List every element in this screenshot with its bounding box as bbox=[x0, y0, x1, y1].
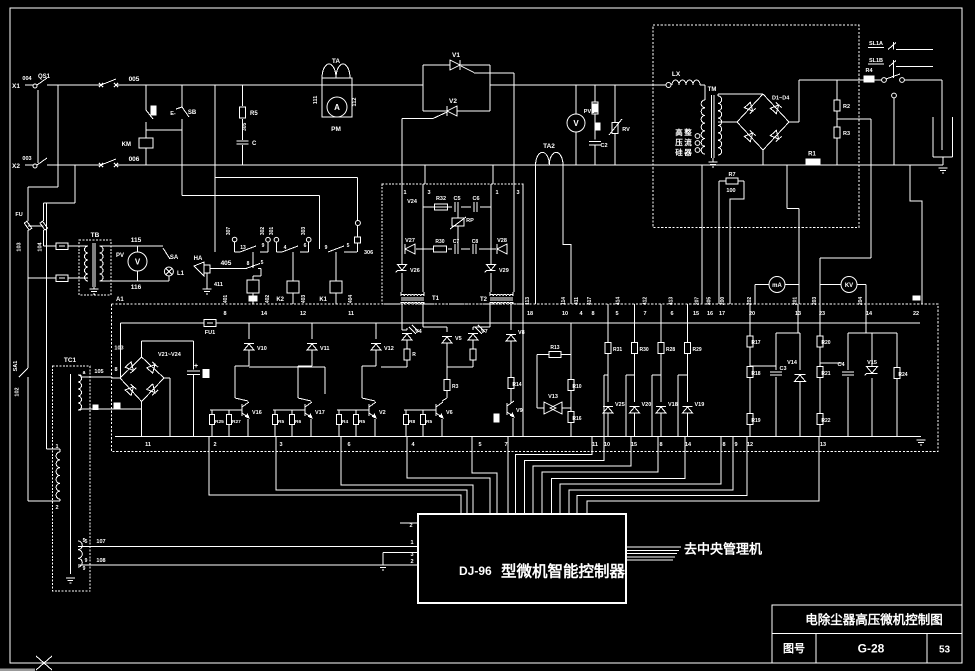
wire TA2 b bbox=[561, 165, 571, 305]
wire TM secondary tap bbox=[718, 121, 737, 123]
svg-text:305: 305 bbox=[242, 122, 248, 131]
svg-text:V16: V16 bbox=[252, 410, 262, 416]
svg-text:15: 15 bbox=[693, 311, 699, 317]
wire bridge out bbox=[789, 80, 864, 122]
switch K throw2 bbox=[892, 93, 897, 165]
svg-text:3: 3 bbox=[516, 190, 519, 196]
svg-text:KV: KV bbox=[845, 283, 853, 289]
svg-text:302: 302 bbox=[260, 227, 266, 236]
svg-text:200: 200 bbox=[720, 297, 726, 306]
svg-text:SL1A: SL1A bbox=[869, 41, 883, 47]
resistor R16 bbox=[568, 412, 582, 437]
svg-text:R24: R24 bbox=[898, 372, 907, 378]
switch SA bbox=[163, 248, 179, 261]
wire label 402 bbox=[265, 295, 271, 304]
svg-text:404: 404 bbox=[348, 295, 354, 304]
wire bus L2 mid bbox=[116, 164, 654, 166]
svg-text:6: 6 bbox=[347, 442, 350, 448]
fan-out wires right bbox=[516, 437, 747, 515]
svg-text:411: 411 bbox=[574, 297, 580, 305]
relay coil K3 bbox=[247, 252, 259, 304]
svg-text:V: V bbox=[573, 119, 579, 128]
svg-text:V2: V2 bbox=[449, 98, 457, 105]
resistor R7 bbox=[719, 172, 744, 304]
svg-text:307: 307 bbox=[226, 227, 232, 236]
capacitor C2 branch bbox=[589, 85, 608, 165]
label PM bbox=[331, 126, 341, 133]
svg-text:V1: V1 bbox=[452, 52, 460, 59]
svg-text:103: 103 bbox=[17, 242, 23, 251]
TC winding primary bbox=[55, 444, 60, 511]
svg-text:2: 2 bbox=[55, 505, 58, 511]
feedback wire 200 bbox=[910, 165, 922, 304]
diode V5 bbox=[423, 304, 462, 394]
controller label bbox=[459, 562, 626, 581]
svg-text:15: 15 bbox=[631, 442, 637, 448]
bridge diode V22 bbox=[147, 362, 158, 373]
svg-text:SA: SA bbox=[170, 255, 179, 261]
svg-text:R19: R19 bbox=[751, 418, 760, 424]
relay contact aux bbox=[246, 260, 264, 276]
svg-text:004: 004 bbox=[22, 76, 32, 82]
wire 105 return bbox=[81, 402, 142, 437]
wire 200 return bbox=[730, 181, 744, 304]
bridge diode D3 bbox=[744, 130, 755, 141]
node 005 bbox=[129, 76, 140, 83]
resistor R21 bbox=[817, 360, 831, 413]
switch K common bbox=[882, 78, 887, 83]
svg-text:C5: C5 bbox=[453, 196, 460, 202]
capacitor C6 bbox=[472, 196, 479, 212]
triac V13 bbox=[537, 394, 571, 414]
signal lamp L1 bbox=[164, 267, 184, 281]
diode V27 bbox=[405, 238, 415, 254]
wire 202 drop bbox=[754, 285, 756, 305]
svg-text:V2: V2 bbox=[379, 410, 386, 416]
resistor R5 bbox=[240, 107, 259, 131]
fan-out straight bbox=[507, 437, 509, 515]
photothyristor V7 bbox=[447, 304, 490, 367]
svg-text:R5: R5 bbox=[250, 111, 258, 117]
svg-text:7: 7 bbox=[643, 311, 646, 317]
bridge output wires bbox=[142, 341, 194, 357]
fuse R4 bbox=[864, 68, 874, 82]
terminal 307 bbox=[226, 227, 237, 252]
svg-text:305: 305 bbox=[707, 297, 713, 306]
svg-text:TA: TA bbox=[332, 58, 340, 65]
svg-text:207: 207 bbox=[695, 297, 701, 306]
wire T1 stub bbox=[401, 165, 403, 184]
thyristor V2 bbox=[447, 98, 457, 116]
svg-text:006: 006 bbox=[129, 156, 140, 163]
wire trigger v1 bbox=[401, 184, 403, 249]
svg-text:111: 111 bbox=[313, 96, 319, 105]
TM taps bbox=[695, 134, 700, 153]
svg-text:R: R bbox=[412, 352, 416, 358]
kilovoltmeter PV2 bbox=[820, 277, 866, 305]
svg-text:R13: R13 bbox=[550, 345, 559, 351]
svg-text:C: C bbox=[252, 141, 257, 147]
wire TC feeder bbox=[47, 203, 60, 449]
wire column link c bbox=[652, 375, 661, 437]
svg-text:9: 9 bbox=[325, 245, 328, 251]
wire KM branch bbox=[145, 85, 147, 165]
TC winding a bbox=[78, 370, 86, 410]
RC rail top bbox=[423, 206, 491, 208]
wire kV tap bbox=[837, 119, 871, 258]
svg-text:R32: R32 bbox=[436, 196, 446, 202]
terminal X1 bbox=[12, 76, 33, 90]
svg-text:R2: R2 bbox=[843, 104, 850, 110]
wire label 404 bbox=[348, 295, 354, 304]
svg-text:V19: V19 bbox=[695, 402, 705, 408]
wire label 401 bbox=[223, 295, 229, 304]
svg-text:A: A bbox=[334, 103, 340, 112]
svg-text:SB: SB bbox=[188, 110, 197, 116]
svg-text:型微机智能控制器: 型微机智能控制器 bbox=[501, 562, 626, 581]
driver V6 cell bbox=[404, 394, 453, 437]
wire TM secondary top bbox=[718, 94, 763, 96]
wire tap 102 bbox=[44, 165, 76, 203]
resistor R3 bbox=[834, 111, 850, 165]
driver V16 cell bbox=[210, 323, 267, 437]
controller pin2 stub bbox=[400, 523, 418, 529]
title block divider bbox=[772, 634, 962, 664]
svg-text:V8: V8 bbox=[518, 330, 525, 336]
bridge diode V21 bbox=[125, 362, 136, 373]
svg-text:R27: R27 bbox=[232, 419, 241, 425]
wire 115 bbox=[100, 237, 164, 246]
svg-text:107: 107 bbox=[96, 539, 105, 545]
svg-text:V4: V4 bbox=[415, 329, 423, 335]
svg-text:403: 403 bbox=[301, 295, 307, 304]
board ground bbox=[917, 440, 926, 445]
fuse FU4 bbox=[28, 275, 68, 282]
svg-text:LX: LX bbox=[672, 71, 681, 78]
board top pin numbers bbox=[223, 311, 919, 317]
label 112 bbox=[352, 98, 358, 107]
wire 116 bbox=[100, 281, 169, 291]
terminal X2 bbox=[12, 156, 33, 170]
svg-text:T2: T2 bbox=[480, 297, 488, 303]
svg-text:QS1: QS1 bbox=[38, 74, 51, 80]
svg-text:V26: V26 bbox=[410, 268, 420, 274]
filter cap C9 bbox=[187, 341, 209, 437]
svg-text:R28: R28 bbox=[666, 347, 675, 353]
title text bbox=[805, 612, 943, 627]
svg-text:11: 11 bbox=[348, 311, 354, 317]
wire T1 pin3 bbox=[422, 207, 424, 292]
wire trigger v3 bbox=[490, 184, 492, 207]
bridge V21~V24 bbox=[120, 352, 182, 402]
svg-text:V18: V18 bbox=[668, 402, 678, 408]
mA net top rail bbox=[776, 304, 800, 333]
bridge right corner wire bbox=[164, 378, 170, 437]
disconnect switch QS1 pole 1 bbox=[33, 74, 51, 88]
relay coil K2 bbox=[276, 252, 299, 304]
label to central computer bbox=[684, 542, 762, 557]
label V24 bbox=[407, 199, 418, 205]
relay contact K3a bbox=[325, 243, 374, 256]
ground controller bbox=[379, 565, 388, 570]
svg-text:V25: V25 bbox=[615, 402, 625, 408]
buzzer HA bbox=[194, 256, 223, 289]
svg-text:C7: C7 bbox=[453, 239, 460, 245]
svg-text:202: 202 bbox=[747, 297, 753, 306]
svg-text:7: 7 bbox=[504, 442, 507, 448]
trigger box bbox=[382, 184, 523, 304]
svg-text:R21: R21 bbox=[821, 371, 830, 377]
svg-text:11: 11 bbox=[592, 442, 598, 448]
fuse FU2 bbox=[38, 203, 48, 252]
thyristor V1 gate wire bbox=[461, 66, 514, 73]
svg-text:R20: R20 bbox=[821, 340, 830, 346]
resistor R24 bbox=[894, 333, 908, 437]
svg-text:V13: V13 bbox=[548, 394, 558, 400]
svg-text:411: 411 bbox=[214, 282, 223, 288]
driver V2 cell bbox=[337, 323, 394, 437]
wire column link a bbox=[604, 375, 608, 437]
svg-text:115: 115 bbox=[131, 237, 142, 244]
diode V14 bbox=[787, 333, 805, 437]
svg-text:14: 14 bbox=[261, 311, 268, 317]
fan-out wire 13 bbox=[587, 437, 819, 515]
svg-text:a: a bbox=[83, 370, 86, 376]
svg-text:G-28: G-28 bbox=[858, 642, 885, 656]
contactor KM main contact L2 bbox=[99, 159, 118, 167]
svg-text:2: 2 bbox=[213, 442, 216, 448]
wire SB drop bbox=[215, 85, 357, 252]
svg-text:R5: R5 bbox=[278, 419, 284, 425]
svg-text:13: 13 bbox=[240, 245, 246, 251]
svg-text:5: 5 bbox=[261, 260, 264, 266]
svg-text:R25: R25 bbox=[215, 419, 224, 425]
svg-text:V9: V9 bbox=[516, 408, 523, 414]
svg-text:8: 8 bbox=[114, 367, 117, 373]
svg-text:306: 306 bbox=[364, 250, 373, 256]
svg-text:R4: R4 bbox=[342, 419, 348, 425]
zener V29 bbox=[485, 207, 509, 292]
svg-text:硅: 硅 bbox=[675, 147, 683, 157]
svg-text:PM: PM bbox=[331, 126, 341, 133]
TC core bbox=[69, 374, 71, 574]
svg-text:DJ-96: DJ-96 bbox=[459, 564, 492, 578]
svg-text:V12: V12 bbox=[384, 346, 394, 352]
svg-text:RP: RP bbox=[466, 218, 474, 224]
svg-text:5: 5 bbox=[347, 243, 350, 249]
pin 1 T1 bbox=[403, 190, 406, 196]
precipitator ground bbox=[939, 168, 948, 173]
pulse transformer T2 bbox=[480, 292, 513, 304]
fuse link bbox=[28, 225, 44, 227]
svg-text:6: 6 bbox=[670, 311, 673, 317]
border corner mark bbox=[0, 656, 52, 671]
TM core ground bbox=[709, 158, 718, 167]
transformer TB bbox=[68, 243, 103, 294]
svg-text:4: 4 bbox=[284, 245, 287, 251]
voltmeter PV bbox=[116, 246, 147, 281]
title field G-28 bbox=[858, 642, 885, 656]
wire V1V2 left junction bbox=[422, 65, 424, 111]
wire bus L1 mid bbox=[116, 84, 423, 86]
wire gate drop 1 bbox=[401, 119, 403, 185]
svg-text:R29: R29 bbox=[693, 347, 702, 353]
svg-text:压: 压 bbox=[675, 138, 683, 147]
svg-text:103: 103 bbox=[114, 346, 123, 352]
svg-text:L1: L1 bbox=[177, 271, 185, 277]
disconnect switch QS1 pole 2 bbox=[33, 158, 47, 168]
thyristor V1 bbox=[450, 52, 460, 70]
svg-text:V20: V20 bbox=[642, 402, 652, 408]
title block frame bbox=[772, 605, 962, 663]
svg-text:102: 102 bbox=[15, 387, 21, 396]
transformer TC box bbox=[53, 357, 91, 591]
pin 3 T2 bbox=[516, 190, 519, 196]
svg-text:9: 9 bbox=[262, 243, 265, 249]
svg-text:12: 12 bbox=[747, 442, 753, 448]
label HV rectifier bbox=[675, 127, 692, 157]
fuse FU5 bbox=[204, 320, 216, 337]
svg-text:R31: R31 bbox=[613, 347, 622, 353]
svg-text:R6: R6 bbox=[295, 419, 301, 425]
relay coil K1 bbox=[319, 252, 342, 304]
svg-text:PV: PV bbox=[116, 253, 124, 259]
svg-text:401: 401 bbox=[223, 295, 229, 304]
damping resistor R1 bbox=[806, 152, 820, 165]
svg-text:R1: R1 bbox=[808, 152, 816, 158]
svg-text:RV: RV bbox=[622, 127, 630, 133]
thyristor V2 gate wire bbox=[402, 112, 447, 119]
svg-text:V17: V17 bbox=[315, 410, 325, 416]
svg-text:112: 112 bbox=[352, 98, 358, 107]
wire T2 pin3 bbox=[513, 249, 515, 292]
HV tank box bbox=[653, 25, 859, 228]
svg-text:X1: X1 bbox=[12, 83, 20, 90]
svg-text:412: 412 bbox=[643, 297, 649, 306]
svg-text:8: 8 bbox=[591, 311, 594, 317]
svg-text:FU: FU bbox=[15, 212, 22, 218]
svg-text:C3: C3 bbox=[779, 366, 786, 372]
control board box A1 bbox=[112, 297, 939, 452]
wire label 403 bbox=[301, 295, 307, 304]
wire SA1 drop bbox=[28, 278, 60, 501]
svg-text:R17: R17 bbox=[751, 340, 760, 346]
wire v10 link bbox=[249, 367, 325, 394]
terminal 301 bbox=[269, 227, 279, 252]
svg-text:204: 204 bbox=[858, 297, 864, 306]
terminal 304 bbox=[354, 221, 360, 253]
terminal 302 bbox=[260, 227, 270, 252]
wire tap 101 bbox=[28, 85, 58, 187]
kV net top rail bbox=[848, 304, 897, 333]
svg-text:V11: V11 bbox=[320, 346, 329, 352]
svg-text:1: 1 bbox=[55, 444, 58, 450]
svg-text:V10: V10 bbox=[257, 346, 267, 352]
svg-text:R30: R30 bbox=[435, 239, 444, 245]
svg-text:SA1: SA1 bbox=[13, 361, 19, 372]
photothyristor V4 bbox=[381, 304, 423, 367]
svg-text:005: 005 bbox=[129, 76, 140, 83]
svg-text:X2: X2 bbox=[12, 163, 20, 170]
wire trigger v4 bbox=[513, 184, 515, 249]
svg-text:电除尘器高压微机控制图: 电除尘器高压微机控制图 bbox=[805, 612, 943, 627]
capacitor C4 bbox=[837, 333, 854, 437]
board bottom pin numbers bbox=[145, 442, 826, 448]
svg-text:A1: A1 bbox=[116, 297, 124, 303]
node 006 bbox=[129, 156, 140, 163]
TC ground bbox=[66, 578, 75, 583]
capacitor C5 bbox=[453, 196, 460, 212]
svg-text:整: 整 bbox=[684, 127, 692, 137]
wire T2 pin1 stub bbox=[492, 165, 494, 184]
svg-text:201: 201 bbox=[793, 297, 799, 306]
terminal 303 bbox=[301, 227, 311, 252]
buzzer ground bbox=[203, 289, 212, 294]
transistor V9 bbox=[494, 401, 523, 437]
svg-text:V6: V6 bbox=[446, 410, 453, 416]
resistor R32 bbox=[435, 196, 448, 210]
svg-text:R22: R22 bbox=[821, 418, 830, 424]
ammeter PM bbox=[327, 97, 347, 117]
bridge diode V23 bbox=[125, 384, 136, 395]
svg-text:R18: R18 bbox=[751, 371, 760, 377]
rectifier bridge D1~D4 bbox=[737, 94, 790, 150]
capacitor C3 bbox=[770, 333, 787, 437]
svg-text:14: 14 bbox=[866, 311, 873, 317]
svg-text:V27: V27 bbox=[405, 238, 415, 244]
svg-text:R8: R8 bbox=[409, 419, 415, 425]
svg-text:TB: TB bbox=[91, 232, 100, 239]
interlock SL1B bbox=[868, 58, 933, 78]
transformer TM bbox=[701, 87, 722, 158]
wire LX to TM bbox=[700, 85, 705, 100]
ammeter PM box bbox=[322, 78, 352, 117]
wire TA2 a bbox=[525, 165, 536, 305]
svg-text:6: 6 bbox=[304, 243, 307, 249]
contactor coil KM bbox=[122, 138, 153, 148]
svg-text:R3: R3 bbox=[452, 384, 459, 390]
svg-text:417: 417 bbox=[587, 297, 593, 306]
svg-text:3: 3 bbox=[410, 552, 413, 558]
resistor R22 bbox=[817, 414, 831, 437]
wires to central computer bbox=[626, 547, 681, 560]
bridge diode V24 bbox=[147, 384, 158, 395]
svg-text:9: 9 bbox=[83, 566, 86, 572]
svg-text:5: 5 bbox=[615, 311, 618, 317]
fuse FU1 bbox=[15, 187, 31, 278]
diode V28 bbox=[497, 238, 507, 254]
varistor RV branch bbox=[609, 85, 630, 165]
svg-text:108: 108 bbox=[96, 558, 105, 564]
wire kV link bbox=[820, 258, 871, 304]
svg-text:R10: R10 bbox=[572, 384, 581, 390]
svg-text:KM: KM bbox=[122, 142, 131, 148]
wire V2 rail bbox=[423, 110, 490, 112]
svg-text:2: 2 bbox=[410, 559, 413, 565]
svg-text:11: 11 bbox=[145, 442, 151, 448]
interlock SL1A bbox=[868, 41, 933, 50]
svg-text:V14: V14 bbox=[787, 360, 798, 366]
svg-text:HA: HA bbox=[194, 256, 203, 262]
relay contact K2a bbox=[276, 243, 308, 252]
wire 107 bbox=[81, 539, 418, 547]
svg-text:105: 105 bbox=[94, 369, 103, 375]
resistor R14 bbox=[508, 378, 522, 404]
resistor R30 bbox=[434, 239, 447, 252]
label 111 bbox=[313, 96, 319, 105]
switch K throw1 bbox=[900, 78, 942, 83]
wire column link d bbox=[678, 375, 688, 437]
